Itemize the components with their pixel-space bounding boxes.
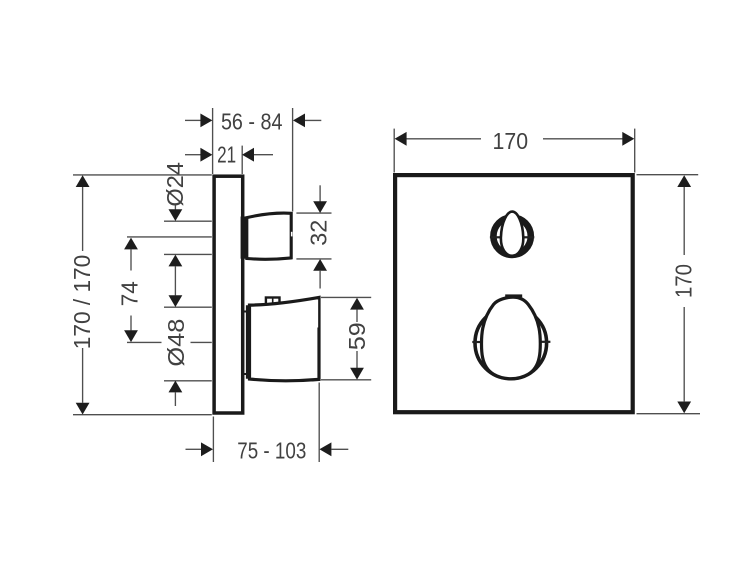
svg-text:Ø48: Ø48 — [163, 319, 189, 367]
svg-text:Ø24: Ø24 — [162, 162, 188, 207]
svg-text:170: 170 — [671, 264, 697, 298]
svg-text:56 - 84: 56 - 84 — [221, 108, 283, 134]
svg-text:75 - 103: 75 - 103 — [237, 438, 306, 464]
svg-text:32: 32 — [306, 220, 332, 246]
svg-text:74: 74 — [117, 281, 143, 306]
svg-text:21: 21 — [217, 142, 236, 168]
svg-text:170 / 170: 170 / 170 — [69, 255, 95, 350]
svg-text:59: 59 — [344, 322, 370, 350]
svg-text:170: 170 — [493, 128, 529, 154]
